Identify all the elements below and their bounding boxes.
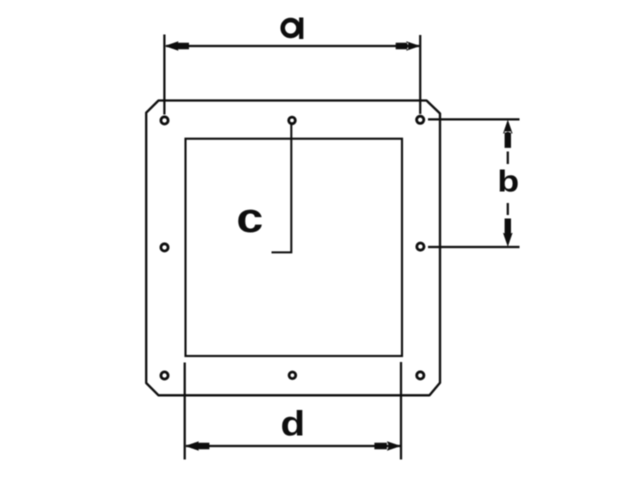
svg-text:d: d bbox=[281, 404, 306, 443]
svg-text:c: c bbox=[236, 194, 263, 241]
svg-text:b: b bbox=[497, 165, 519, 199]
